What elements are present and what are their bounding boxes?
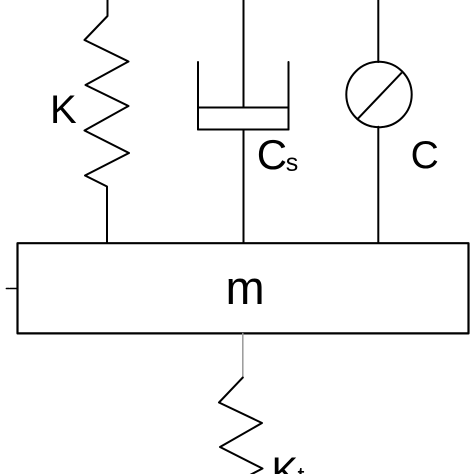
- damper Cs top rod: [243, 0, 245, 108]
- damper Cs bottom rod: [243, 130, 245, 244]
- svg-text:K: K: [50, 88, 77, 132]
- damper Cs cup right wall: [288, 62, 290, 130]
- actuator C diagonal: [357, 73, 402, 120]
- spring Kt: [219, 378, 263, 474]
- svg-text:K: K: [272, 450, 299, 474]
- damper Cs piston plate: [198, 107, 289, 109]
- actuator C circle: [346, 62, 411, 127]
- svg-text:s: s: [286, 149, 299, 177]
- svg-text:C: C: [411, 134, 439, 177]
- damper Cs cup left wall: [197, 62, 199, 130]
- damper Cs cup bottom: [198, 129, 289, 131]
- mass m box: [18, 243, 469, 333]
- actuator C top rod: [377, 0, 379, 62]
- wire mass to tire spring (gray): [242, 334, 244, 378]
- actuator C bottom rod: [377, 127, 379, 243]
- dash-dot centerline left of mass: [10, 288, 18, 290]
- svg-text:C: C: [257, 131, 287, 178]
- spring K: [85, 0, 130, 243]
- svg-text:m: m: [226, 261, 265, 314]
- svg-text:t: t: [298, 463, 305, 474]
